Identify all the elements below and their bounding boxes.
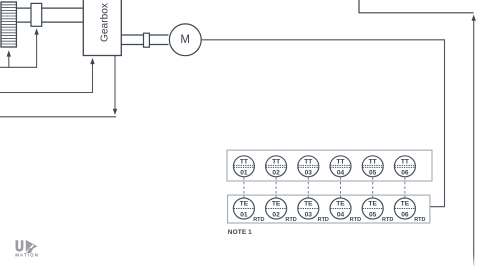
arrow up into top wire: [472, 15, 476, 21]
wire motor to TE rack: [201, 40, 445, 207]
svg-text:TT: TT: [240, 158, 248, 165]
svg-text:TT: TT: [369, 158, 377, 165]
svg-text:01: 01: [240, 169, 248, 176]
wire right vertical riser: [473, 20, 475, 267]
gearbox U1: [83, 0, 121, 56]
svg-text:TT: TT: [401, 158, 409, 165]
wire signal bus to coupling C1: [0, 34, 37, 67]
svg-text:TE: TE: [304, 200, 313, 207]
temperature element TE06: [394, 198, 415, 219]
svg-text:RTD: RTD: [414, 217, 425, 223]
wire connector TT03 to TE03: [307, 177, 309, 197]
svg-text:02: 02: [272, 211, 280, 218]
temperature element TE04: [330, 198, 351, 219]
wire bottom bus: [0, 116, 116, 118]
temperature element TE01: [233, 198, 254, 219]
temperature transmitter TT01: [233, 156, 254, 177]
wire gearbox down: [114, 55, 116, 110]
svg-text:04: 04: [337, 211, 345, 218]
svg-text:06: 06: [401, 211, 409, 218]
finned machine body: [1, 2, 16, 47]
temperature transmitter TT06: [394, 156, 415, 177]
svg-text:05: 05: [369, 169, 377, 176]
svg-text:RTD: RTD: [285, 217, 296, 223]
svg-text:RTD: RTD: [253, 217, 264, 223]
TE rack box: [228, 195, 430, 223]
svg-text:05: 05: [369, 211, 377, 218]
wire connector TT04 to TE04: [340, 177, 342, 197]
wire branch to finned machine: [8, 56, 10, 67]
temperature transmitter TT05: [362, 156, 383, 177]
wire shaft machine to coupling C1: [16, 8, 31, 22]
svg-text:RTD: RTD: [350, 217, 361, 223]
svg-text:NOTE 1: NOTE 1: [228, 229, 252, 236]
temperature element TE02: [266, 198, 287, 219]
svg-text:01: 01: [240, 211, 248, 218]
coupling C1: [31, 3, 42, 26]
svg-text:M: M: [180, 34, 190, 46]
svg-text:06: 06: [401, 169, 409, 176]
logo upmation: [15, 240, 39, 258]
temperature transmitter TT02: [266, 156, 287, 177]
wire connector TT02 to TE02: [275, 177, 277, 197]
temperature element TE05: [362, 198, 383, 219]
svg-text:RTD: RTD: [318, 217, 329, 223]
svg-text:TE: TE: [336, 200, 345, 207]
motor M: [169, 24, 201, 56]
TT rack box: [227, 150, 432, 181]
svg-text:TT: TT: [272, 158, 280, 165]
temperature transmitter TT03: [298, 156, 319, 177]
svg-text:MATION: MATION: [15, 253, 39, 258]
arrow into coupling C1: [34, 28, 38, 34]
svg-text:Gearbox: Gearbox: [100, 3, 111, 42]
wire shaft coupling C2 to motor: [149, 35, 168, 45]
svg-text:TT: TT: [336, 158, 344, 165]
wire top right exit: [359, 0, 474, 13]
wire signal to gearbox: [0, 63, 93, 92]
svg-text:RTD: RTD: [382, 217, 393, 223]
arrow down to bottom bus: [113, 109, 117, 115]
arrow into gearbox: [90, 58, 94, 64]
temperature element TE03: [298, 198, 319, 219]
wire connector TT05 to TE05: [372, 177, 374, 197]
svg-text:TE: TE: [272, 200, 281, 207]
wire shaft gearbox to coupling C2: [121, 35, 143, 45]
wire connector TT01 to TE01: [243, 177, 245, 197]
coupling C2: [144, 33, 150, 47]
svg-text:TE: TE: [368, 200, 377, 207]
svg-text:03: 03: [305, 211, 313, 218]
svg-text:04: 04: [337, 169, 345, 176]
svg-text:TT: TT: [304, 158, 312, 165]
wire shaft coupling C1 to gearbox: [42, 8, 83, 22]
wire connector TT06 to TE06: [404, 177, 406, 197]
arrow into finned machine: [7, 50, 11, 56]
svg-text:TE: TE: [240, 200, 249, 207]
svg-text:TE: TE: [401, 200, 410, 207]
temperature transmitter TT04: [330, 156, 351, 177]
svg-text:03: 03: [305, 169, 313, 176]
svg-text:02: 02: [272, 169, 280, 176]
